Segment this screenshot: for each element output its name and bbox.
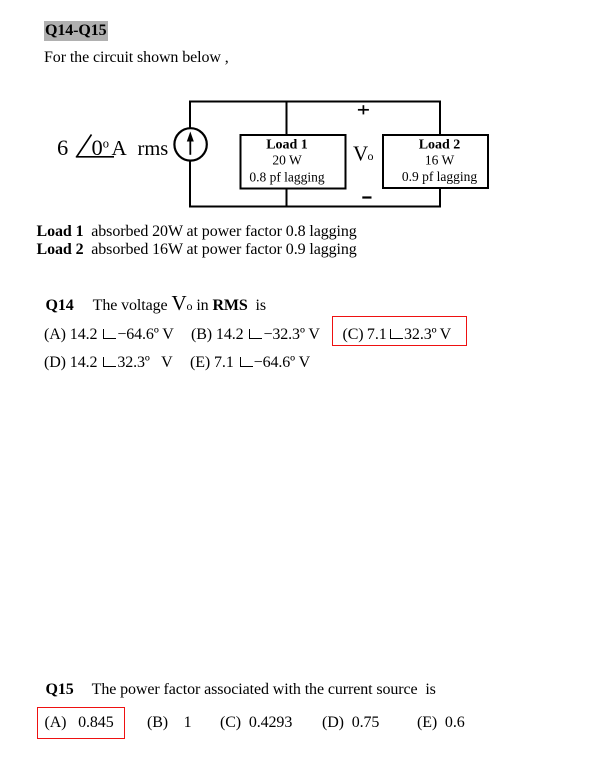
wire: left leg above current source — [189, 101, 191, 130]
wire: right leg from top node into Load 2 — [439, 102, 441, 141]
description lines — [37, 223, 357, 241]
node label: - polarity mark — [362, 196, 371, 198]
wire: top node (+) from source to Load 2 — [189, 101, 441, 103]
load box: Load 2, 16 W, 0.9 pf lagging — [383, 135, 488, 188]
svg-text:V: V — [353, 142, 368, 166]
svg-text:20 W: 20 W — [272, 153, 302, 168]
node label: + polarity mark — [358, 105, 369, 114]
svg-text:0.8 pf lagging: 0.8 pf lagging — [249, 170, 325, 185]
net label: Vo output voltage — [353, 142, 374, 166]
wire: middle leg from top node into Load 1 — [286, 102, 288, 141]
wire: left leg below current source — [189, 161, 191, 208]
svg-text:A: A — [112, 136, 128, 160]
svg-text:o: o — [368, 149, 374, 163]
wire: middle leg from Load 1 to bottom node — [286, 185, 288, 207]
wire: right leg from Load 2 to bottom node — [439, 185, 441, 207]
svg-text:Load 1: Load 1 — [266, 138, 308, 153]
svg-text:Load 2: Load 2 — [419, 138, 461, 153]
svg-text:0.9 pf lagging: 0.9 pf lagging — [402, 169, 478, 184]
Q15 — [46, 681, 436, 699]
value label: 6 angle 0 deg A rms — [57, 135, 168, 161]
svg-text:6: 6 — [57, 135, 68, 160]
wire: bottom node (-) return — [189, 206, 441, 208]
svg-text:rms: rms — [138, 138, 169, 160]
load box: Load 1, 20 W, 0.8 pf lagging — [241, 135, 346, 189]
svg-text:16 W: 16 W — [425, 153, 455, 168]
heading — [44, 22, 108, 40]
Q14 — [46, 294, 267, 315]
current source I1 circle with up arrow — [174, 128, 206, 160]
